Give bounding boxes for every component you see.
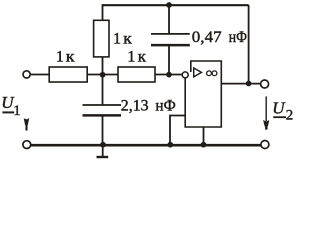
wire op-amp output <box>221 83 260 85</box>
node top-left corner to R2 <box>102 5 104 20</box>
terminal input <box>23 71 30 78</box>
arrow U2 direction <box>265 96 267 121</box>
ground symbol <box>102 145 104 157</box>
resistor R1 <box>49 67 87 82</box>
wire non-inverting input to ground <box>170 116 185 145</box>
capacitor C1 plates 0,47 <box>151 33 190 35</box>
wire R1 to node A <box>87 74 118 76</box>
arrow U1 direction <box>24 118 30 130</box>
svg-text:2,13: 2,13 <box>121 98 149 115</box>
resistor R2 <box>94 20 109 57</box>
node A junction dot <box>100 72 106 78</box>
wire input to R1 <box>30 74 49 76</box>
op-amp U1 box <box>185 61 221 127</box>
wire op-amp bottom pin to ground rail <box>203 127 205 145</box>
svg-text:U: U <box>272 98 286 117</box>
resistor R3 <box>118 67 155 82</box>
junction dot rail at non-inverting ground <box>167 142 173 148</box>
svg-text:к: к <box>138 49 146 66</box>
svg-text:1: 1 <box>56 49 64 66</box>
terminal output top <box>261 80 269 88</box>
svg-text:к: к <box>66 49 75 66</box>
wire bottom ground rail <box>31 144 261 147</box>
wire C1 bottom lead <box>168 45 170 74</box>
capacitor C2 plates 2,13 <box>83 104 122 106</box>
node junction dot at C1 bottom <box>166 72 172 78</box>
wire R3 to op-amp inverting input <box>155 74 182 76</box>
svg-text:2: 2 <box>286 108 294 124</box>
svg-text:1: 1 <box>127 49 135 66</box>
junction dot rail at C2 <box>100 142 106 148</box>
svg-text:к: к <box>123 31 132 48</box>
wire C2 bottom lead <box>102 115 104 144</box>
node junction dot C1 top on feedback wire <box>166 2 172 8</box>
wire feedback right vertical <box>248 5 250 84</box>
op-amp infinity symbol <box>207 71 212 76</box>
wire R2 bottom lead <box>102 57 104 75</box>
terminal bottom left <box>23 141 31 149</box>
wire top feedback <box>102 4 249 6</box>
svg-text:0,47: 0,47 <box>192 29 222 46</box>
wire C1 top lead <box>168 5 170 34</box>
op-amp gain triangle symbol <box>194 68 202 77</box>
junction dot rail at op-amp pin <box>201 142 207 148</box>
op-amp inverting input inversion circle <box>182 72 188 78</box>
svg-text:нФ: нФ <box>155 98 175 115</box>
wire C2 top lead <box>102 75 104 106</box>
terminal bottom right <box>261 141 269 149</box>
svg-text:1: 1 <box>13 103 20 119</box>
svg-text:нФ: нФ <box>229 29 247 46</box>
node output junction dot <box>246 81 252 87</box>
svg-text:1: 1 <box>113 31 121 48</box>
